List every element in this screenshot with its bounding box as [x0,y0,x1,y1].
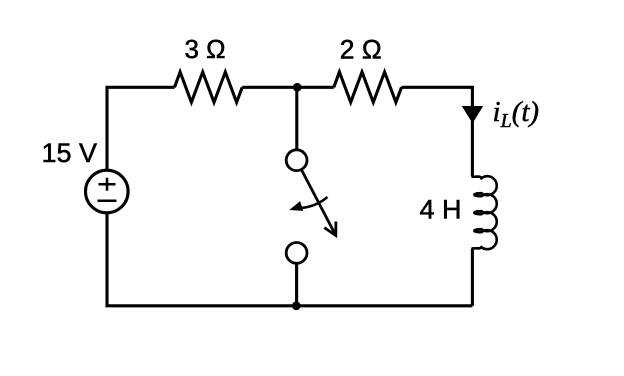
svg-text:15 V: 15 V [42,138,98,168]
voltage source plus sign [99,178,116,191]
wire inductor bottom to bottom-right corner [471,249,474,306]
resistor R1 3 ohm (zigzag) [175,72,243,102]
wire source bottom to bottom-left corner [107,213,472,306]
wire top-left from source to 3-ohm resistor [107,87,175,170]
wire top node down to switch top terminal [295,87,298,150]
svg-text:2 Ω: 2 Ω [340,35,382,65]
node A top junction dot [293,83,302,92]
svg-text:4 H: 4 H [420,195,462,225]
svg-text:iL(t): iL(t) [493,96,540,132]
switch blade arrowhead [324,222,336,236]
current arrow iL(t) [462,106,483,123]
voltage source V1 15V circle [86,170,129,213]
switch motion arc [301,197,328,208]
wire from 3-ohm resistor to top node [242,86,334,89]
switch SW top terminal circle [286,150,307,171]
switch motion arc arrowhead [289,201,303,211]
resistor R2 2 ohm (zigzag) [334,72,402,102]
wire switch bottom terminal to bottom node [295,263,298,306]
switch blade [302,170,335,233]
svg-text:3 Ω: 3 Ω [185,34,226,64]
wire from 2-ohm resistor to top-right corner [402,87,473,176]
node B bottom junction dot [292,301,301,310]
voltage source minus sign [98,199,117,202]
switch SW bottom terminal circle [286,243,307,264]
inductor L1 4H coil [472,176,497,249]
